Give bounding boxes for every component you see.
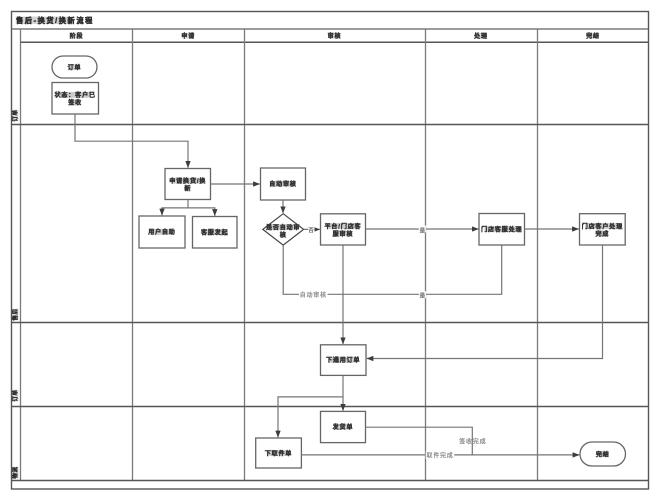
- svg-text:自动审核: 自动审核: [300, 291, 327, 299]
- svg-text:取件完成: 取件完成: [426, 451, 453, 459]
- svg-text:是: 是: [420, 293, 426, 300]
- box 用户自助: [139, 216, 185, 248]
- svg-text:申请换货/换: 申请换货/换: [169, 177, 206, 185]
- title: 售后-换货/换新流程: [16, 17, 75, 24]
- svg-text:阶段: 阶段: [70, 32, 84, 40]
- svg-text:订单: 订单: [11, 389, 19, 401]
- wire branch to 客服发起: [188, 208, 215, 216]
- box 客服发起: [193, 217, 238, 249]
- label 是 on that wire: [419, 226, 426, 233]
- wire diamond -> 平台/门店客服审核: [304, 228, 320, 230]
- lane label 售后 (lane 2): [13, 309, 19, 321]
- wire 平台/门店客服审核 -> 门店客服处理: [366, 228, 479, 230]
- column divider 处理/完结: [537, 29, 539, 481]
- column divider 阶段/申请: [132, 29, 134, 481]
- header 阶段: [71, 33, 83, 39]
- header 审核: [329, 33, 341, 39]
- svg-text:物流: 物流: [11, 466, 19, 478]
- header 申请: [183, 33, 195, 39]
- wire 下取件单 -> 完结 (取件完成): [301, 454, 579, 456]
- svg-text:核: 核: [280, 231, 287, 239]
- svg-text:下通用订单: 下通用订单: [326, 356, 361, 364]
- row divider lane1/lane2: [12, 124, 649, 126]
- svg-text:是: 是: [420, 227, 426, 234]
- wire 门店客服处理 -> 门店客户处理完成: [525, 228, 579, 230]
- svg-text:自动审核: 自动审核: [269, 180, 297, 188]
- box 门店客服处理: [479, 214, 525, 246]
- header 完结: [587, 33, 599, 39]
- box 自动审核: [261, 168, 306, 200]
- box 申请换货/换新: [165, 169, 211, 200]
- svg-text:完结: 完结: [595, 450, 610, 458]
- wire 申请换货/换新 -> 自动审核: [211, 183, 260, 185]
- box 下通用订单: [321, 345, 367, 376]
- box 发货单: [321, 411, 366, 442]
- box 下取件单: [256, 438, 302, 468]
- label 取件完成: [426, 451, 455, 459]
- column divider 申请/审核: [244, 29, 246, 481]
- svg-text:下取件单: 下取件单: [265, 449, 293, 457]
- svg-text:门店客户处理: 门店客户处理: [582, 222, 623, 230]
- svg-text:签收: 签收: [67, 99, 82, 107]
- box 平台/门店客服审核: [321, 214, 366, 245]
- svg-text:用户自助: 用户自助: [147, 228, 176, 236]
- end stadium 完结: [580, 442, 626, 466]
- wire 发货单 -> join (签收完成): [366, 427, 473, 455]
- row divider lane2/lane3: [12, 322, 649, 324]
- header bottom line: [21, 41, 649, 43]
- svg-text:是否自动审: 是否自动审: [265, 224, 301, 232]
- svg-text:售后-换货/换新流程: 售后-换货/换新流程: [16, 16, 94, 25]
- start stadium 订单: [52, 56, 97, 78]
- lane label 物流 (lane 4): [13, 467, 19, 479]
- wire 平台/门店客服审核 -> 下通用订单: [342, 245, 344, 344]
- box 门店客户处理完成: [580, 214, 626, 245]
- column divider 审核/处理: [425, 29, 427, 481]
- svg-text:门店客服处理: 门店客服处理: [481, 226, 522, 234]
- wire 下通用订单 -> 下取件单: [278, 397, 343, 437]
- svg-text:否: 否: [308, 227, 314, 234]
- lane label 订单 (lane 1): [13, 110, 19, 122]
- wire 门店客户处理完成 -> 下通用订单 (right side): [367, 245, 603, 359]
- lane label 订单 (lane 3): [13, 390, 19, 402]
- svg-text:客服发起: 客服发起: [200, 229, 229, 237]
- label 自动审核: [299, 291, 328, 299]
- svg-text:审核: 审核: [328, 32, 342, 40]
- wire 下通用订单 -> 发货单: [342, 375, 344, 410]
- svg-text:新: 新: [184, 185, 191, 193]
- diamond 是否自动审核: [263, 214, 304, 245]
- label 否: [308, 226, 315, 233]
- svg-text:订单: 订单: [68, 63, 82, 71]
- svg-text:平台/门店客: 平台/门店客: [324, 222, 361, 230]
- svg-text:售后: 售后: [11, 308, 19, 320]
- wire 状态->申请换货/换新: [75, 114, 188, 167]
- header 处理: [475, 33, 487, 39]
- lane label column divider: [20, 29, 22, 481]
- svg-text:完结: 完结: [585, 32, 600, 40]
- wire diamond bottom -> 门店客服处理 bottom (自动审核 path): [283, 245, 502, 294]
- svg-text:订单: 订单: [11, 109, 19, 121]
- title separator line: [12, 28, 649, 30]
- label 是 on 自动审核 path: [419, 291, 426, 298]
- svg-text:申请: 申请: [181, 32, 195, 40]
- svg-text:完成: 完成: [594, 230, 609, 238]
- svg-text:状态：客户已: 状态：客户已: [54, 91, 95, 99]
- row divider lane3/lane4: [12, 406, 649, 408]
- svg-text:发货单: 发货单: [332, 423, 354, 431]
- svg-text:签收完成: 签收完成: [459, 438, 486, 446]
- wire 自动审核 -> diamond: [282, 200, 284, 213]
- svg-text:服审核: 服审核: [333, 230, 354, 238]
- svg-text:处理: 处理: [473, 32, 488, 40]
- table bottom line: [12, 480, 649, 482]
- box 状态：客户已签收: [52, 83, 99, 115]
- wire split 申请换货/换新 -> 用户自助 / 客服发起: [162, 200, 188, 216]
